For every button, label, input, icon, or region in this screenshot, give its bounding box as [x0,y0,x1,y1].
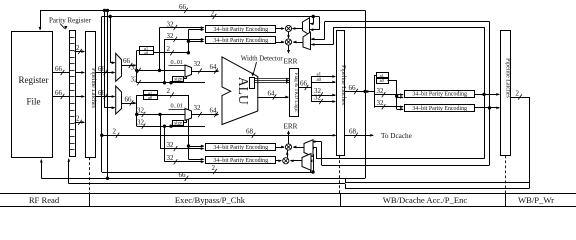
svg-text:66: 66 [55,89,63,97]
svg-text:32: 32 [167,20,175,28]
svg-text:68: 68 [246,128,254,136]
svg-text:2: 2 [76,44,80,52]
svg-text:2: 2 [76,115,80,123]
svg-text:File: File [26,97,40,107]
svg-text:ERR: ERR [284,57,298,65]
svg-text:Parity Register: Parity Register [49,17,91,25]
svg-text:32: 32 [194,104,202,112]
svg-text:sign: sign [174,77,183,82]
svg-text:34–bit Parity Encoding: 34–bit Parity Encoding [412,92,467,98]
svg-text:66: 66 [125,96,133,104]
svg-text:2: 2 [516,89,520,97]
svg-text:64: 64 [268,89,276,97]
svg-text:sign: sign [174,122,183,127]
svg-text:a0: a0 [144,51,149,56]
svg-text:2: 2 [167,45,171,53]
svg-text:66: 66 [179,3,187,11]
svg-text:0..01: 0..01 [171,103,183,110]
svg-text:WB/Dcache Acc./P_Enc: WB/Dcache Acc./P_Enc [383,195,468,205]
svg-text:66: 66 [123,57,131,65]
svg-text:To Dcache: To Dcache [381,132,412,140]
svg-text:Flag & TKD Logic: Flag & TKD Logic [293,73,299,114]
svg-text:Exec/Bypass/P_Chk: Exec/Bypass/P_Chk [175,195,246,205]
svg-text:34–bit Parity Encoding: 34–bit Parity Encoding [412,106,467,112]
svg-text:ERR: ERR [284,122,298,130]
svg-text:a0: a0 [148,95,153,100]
svg-text:32: 32 [167,154,175,162]
svg-text:2: 2 [113,127,117,135]
svg-text:66: 66 [55,65,63,73]
svg-text:Width Detector: Width Detector [241,56,284,63]
svg-text:32: 32 [194,60,202,68]
svg-text:Pipeline Latches: Pipeline Latches [90,68,96,108]
svg-text:64: 64 [210,107,218,115]
svg-text:Pipeline Latches: Pipeline Latches [504,58,510,98]
svg-text:32: 32 [131,76,139,84]
svg-text:a0: a0 [380,78,385,83]
svg-text:RF Read: RF Read [29,195,60,205]
svg-text:a1: a1 [317,72,322,77]
svg-text:32: 32 [167,141,175,149]
svg-text:32: 32 [131,63,139,71]
svg-text:2: 2 [212,164,216,172]
svg-text:Pipeline Latches: Pipeline Latches [340,65,346,105]
svg-text:32: 32 [314,94,322,102]
svg-text:32: 32 [377,99,385,107]
svg-text:0..01: 0..01 [171,59,183,66]
svg-text:66: 66 [300,79,308,87]
svg-text:34–bit Parity Encoding: 34–bit Parity Encoding [213,158,268,164]
svg-text:34–bit Parity Encoding: 34–bit Parity Encoding [213,27,268,33]
svg-text:32: 32 [377,87,385,95]
svg-text:66: 66 [179,171,187,179]
svg-text:32: 32 [137,107,145,115]
svg-text:WB/P_Wr: WB/P_Wr [518,195,554,205]
svg-text:64: 64 [210,63,218,71]
svg-text:ALU: ALU [236,77,251,105]
svg-text:68: 68 [349,128,357,136]
svg-text:34–bit Parity Encoding: 34–bit Parity Encoding [213,145,268,151]
svg-text:34–bit Parity Encoding: 34–bit Parity Encoding [213,38,268,44]
svg-text:2: 2 [211,9,215,17]
svg-text:a0: a0 [317,78,322,83]
svg-text:66: 66 [349,84,357,92]
svg-text:2: 2 [167,87,171,95]
svg-text:32: 32 [167,32,175,40]
svg-text:32: 32 [137,118,145,126]
svg-text:Register: Register [19,75,49,85]
